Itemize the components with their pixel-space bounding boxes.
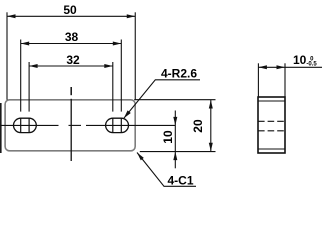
horizontal centerline segment B — [69, 124, 82, 126]
leader 4-C1 underline — [137, 153, 196, 187]
dimension 50 arrow left — [7, 14, 16, 18]
dimension 10 arrow bottom — [173, 152, 177, 161]
dimension 10 tol arrow left — [258, 65, 267, 69]
dimension 10 tol extension line right — [284, 63, 286, 96]
dimension 50 arrow right — [127, 14, 136, 18]
vertical centerline dash — [70, 87, 72, 95]
dimension 32 extension line left — [28, 62, 30, 112]
dimension 10 tol extension line left — [257, 63, 259, 96]
dimension 32 arrow left — [29, 64, 37, 68]
left slot arc-center mark right — [28, 118, 30, 133]
right slot arc-center mark left — [112, 118, 114, 133]
dimension 50 extension line left — [6, 12, 8, 100]
dimension 38 extension line left — [20, 40, 22, 112]
dimension 50 line — [7, 15, 135, 17]
dimension 38 extension line right — [120, 40, 122, 112]
dimension 20 arrow top — [209, 100, 213, 109]
svg-text:20: 20 — [191, 119, 205, 133]
dimension 10 tol arrow right — [277, 65, 286, 69]
dimension 10 arrow top — [173, 117, 177, 126]
leader 4-R2.6 arrowhead — [124, 110, 131, 118]
dimension 32 line — [29, 65, 113, 67]
dimension 32 extension line right — [112, 62, 114, 112]
left slot arc-center mark left — [20, 118, 22, 133]
leader 4-R2.6 underline — [124, 80, 200, 119]
svg-text:10: 10 — [293, 53, 307, 67]
svg-text:4-C1: 4-C1 — [167, 173, 193, 187]
horizontal centerline segment C — [86, 124, 175, 126]
right slot arc-center mark right — [120, 118, 122, 133]
dimension 20 arrow bottom — [209, 143, 213, 152]
dimension 10 tol line — [258, 66, 322, 68]
svg-text:4-R2.6: 4-R2.6 — [161, 66, 197, 80]
dimension 38 arrow left — [21, 42, 30, 46]
svg-text:32: 32 — [66, 53, 80, 67]
right slot outline — [106, 118, 129, 132]
side view hidden line upper — [258, 120, 285, 122]
horizontal centerline segment A — [0, 124, 59, 126]
dimension 50 extension line right — [134, 12, 136, 99]
svg-text:50: 50 — [63, 3, 77, 17]
dimension 10 line (front view) — [174, 111, 176, 169]
front view plate outline — [5, 100, 135, 151]
side view hidden line lower — [258, 130, 285, 132]
border line left edge — [0, 103, 2, 153]
svg-text:10: 10 — [161, 130, 175, 144]
dimension 20 line — [210, 100, 212, 151]
side view chamfer line top — [258, 100, 285, 102]
left slot outline — [13, 118, 36, 132]
side view outline — [258, 97, 285, 153]
dimension 32 arrow right — [104, 64, 113, 68]
svg-text:-0.5: -0.5 — [306, 62, 317, 68]
dimension 20 extension line bottom — [140, 151, 216, 153]
svg-text:38: 38 — [65, 30, 79, 44]
leader 4-C1 arrowhead — [137, 153, 144, 161]
vertical centerline long — [70, 99, 72, 161]
dimension 38 line — [21, 43, 122, 45]
dimension 20 extension line top — [134, 99, 215, 101]
dimension 38 arrow right — [113, 42, 122, 46]
side view chamfer line bottom — [258, 148, 285, 150]
